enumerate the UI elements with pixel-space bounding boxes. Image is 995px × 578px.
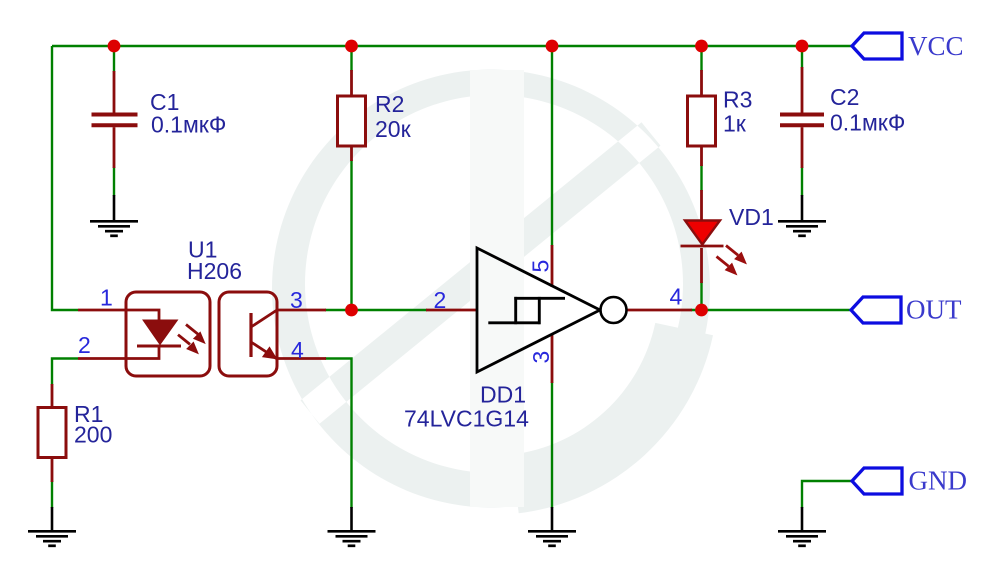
svg-text:1: 1 [100,285,113,311]
connector VCC [852,33,902,59]
junction node at R3/VCC [695,40,708,53]
wire R2 top stub [350,46,352,71]
svg-text:H206: H206 [187,258,242,284]
DD1 hysteresis symbol [488,297,565,324]
wire node OUT to connector [691,309,851,311]
resistor R1 [38,384,66,482]
svg-text:R3: R3 [723,87,752,113]
ground at U1 pin4 [328,507,376,546]
wire VCC left drop to U1 pin1 [52,46,78,310]
DD1 pin3 lead [551,334,554,383]
resistor R2 [338,70,366,161]
VD1 emission arrows [717,246,747,275]
ground at DD1 pin3 [528,507,576,546]
DD1 input lead [426,309,477,312]
svg-text:0.1мкФ: 0.1мкФ [830,110,905,136]
wire VD1 to node OUT [700,282,702,310]
U1 phototransistor [251,310,277,359]
wire C2 to ground [801,167,803,196]
svg-text:4: 4 [670,284,683,310]
U1 pin 1 lead [78,309,126,312]
svg-text:2: 2 [434,287,447,313]
ground at C2 [778,195,826,236]
U1 pin 3 lead [277,309,326,312]
svg-text:VCC: VCC [908,31,964,61]
junction node at R2/VCC [345,40,358,53]
wire U1 pin4 to ground [325,359,352,509]
svg-text:2: 2 [78,332,91,358]
optocoupler U1 transistor side box [219,292,277,376]
wire DD1 pin3 to ground [551,382,553,508]
svg-text:GND: GND [909,466,968,496]
wire R2 bottom to node 2 [350,160,352,310]
wire U1 pin2 to R1 [52,359,78,386]
junction node 2 (R2/pin3) [345,304,358,317]
watermark logo [272,70,713,514]
U1 LED emission arrows [178,325,205,354]
svg-text:VD1: VD1 [729,204,774,230]
DD1 output lead [627,309,692,312]
capacitor C2 [780,67,824,168]
svg-text:1к: 1к [723,111,747,137]
ground at GND connector [778,507,826,546]
wire R3 top stub [700,46,702,71]
svg-text:20к: 20к [375,116,412,142]
wire VCC top rail [52,45,852,47]
capacitor C1 [92,71,138,168]
wire U1 pin3 to DD1 input [325,309,427,311]
svg-text:5: 5 [528,260,554,273]
wire R1 bottom to ground [51,481,53,508]
U1 pin 2 lead [78,357,126,360]
connector GND [852,468,902,494]
LED VD1 [681,190,724,283]
svg-text:3: 3 [290,287,303,313]
resistor R3 [688,70,716,166]
wire R3 to VD1 [700,165,702,191]
optocoupler U1 LED side box [126,292,210,376]
svg-text:C2: C2 [830,84,859,110]
wire C2 top stub [801,46,803,68]
wire C1 top stub [113,46,115,72]
svg-text:200: 200 [74,422,112,448]
junction node at pin5/VCC [546,40,559,53]
svg-text:3: 3 [528,351,554,364]
svg-text:74LVC1G14: 74LVC1G14 [404,406,529,432]
svg-text:DD1: DD1 [480,382,526,408]
U1 pin 4 lead [277,357,326,360]
DD1 pin5 lead [551,245,554,287]
svg-text:R2: R2 [375,91,404,117]
ground at R1 [28,507,76,546]
junction node at C1/VCC [108,40,121,53]
wire GND connector to ground [802,481,852,508]
wire C1 to ground [113,167,115,196]
connector OUT [851,297,901,323]
DD1 output inversion bubble [601,297,627,323]
op-amp triangle DD1 [477,248,600,372]
svg-text:0.1мкФ: 0.1мкФ [151,112,226,138]
junction node at C2/VCC [796,40,809,53]
svg-text:OUT: OUT [906,295,962,325]
ground at C1 [90,195,138,236]
svg-text:4: 4 [291,337,304,363]
wire DD1 pin5 from VCC rail [551,46,553,246]
U1 internal LED [126,310,181,359]
junction node OUT [695,304,708,317]
